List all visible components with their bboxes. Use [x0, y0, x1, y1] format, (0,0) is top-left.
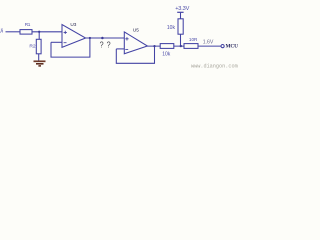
svg-text:MCU: MCU [226, 43, 239, 49]
svg-text:10k: 10k [167, 25, 176, 31]
svg-text:1.6V: 1.6V [203, 39, 214, 45]
svg-text:? ?: ? ? [100, 40, 112, 49]
svg-text:10R: 10R [189, 37, 198, 42]
svg-text:U5: U5 [133, 28, 139, 33]
svg-text:R1: R1 [25, 22, 31, 27]
svg-text:www.diangon.com: www.diangon.com [191, 64, 238, 70]
svg-text:U3: U3 [70, 22, 76, 27]
svg-text:+3.3V: +3.3V [175, 6, 189, 12]
svg-text:Ui: Ui [0, 28, 3, 34]
svg-text:10k: 10k [162, 52, 171, 58]
svg-text:R2: R2 [29, 44, 36, 50]
